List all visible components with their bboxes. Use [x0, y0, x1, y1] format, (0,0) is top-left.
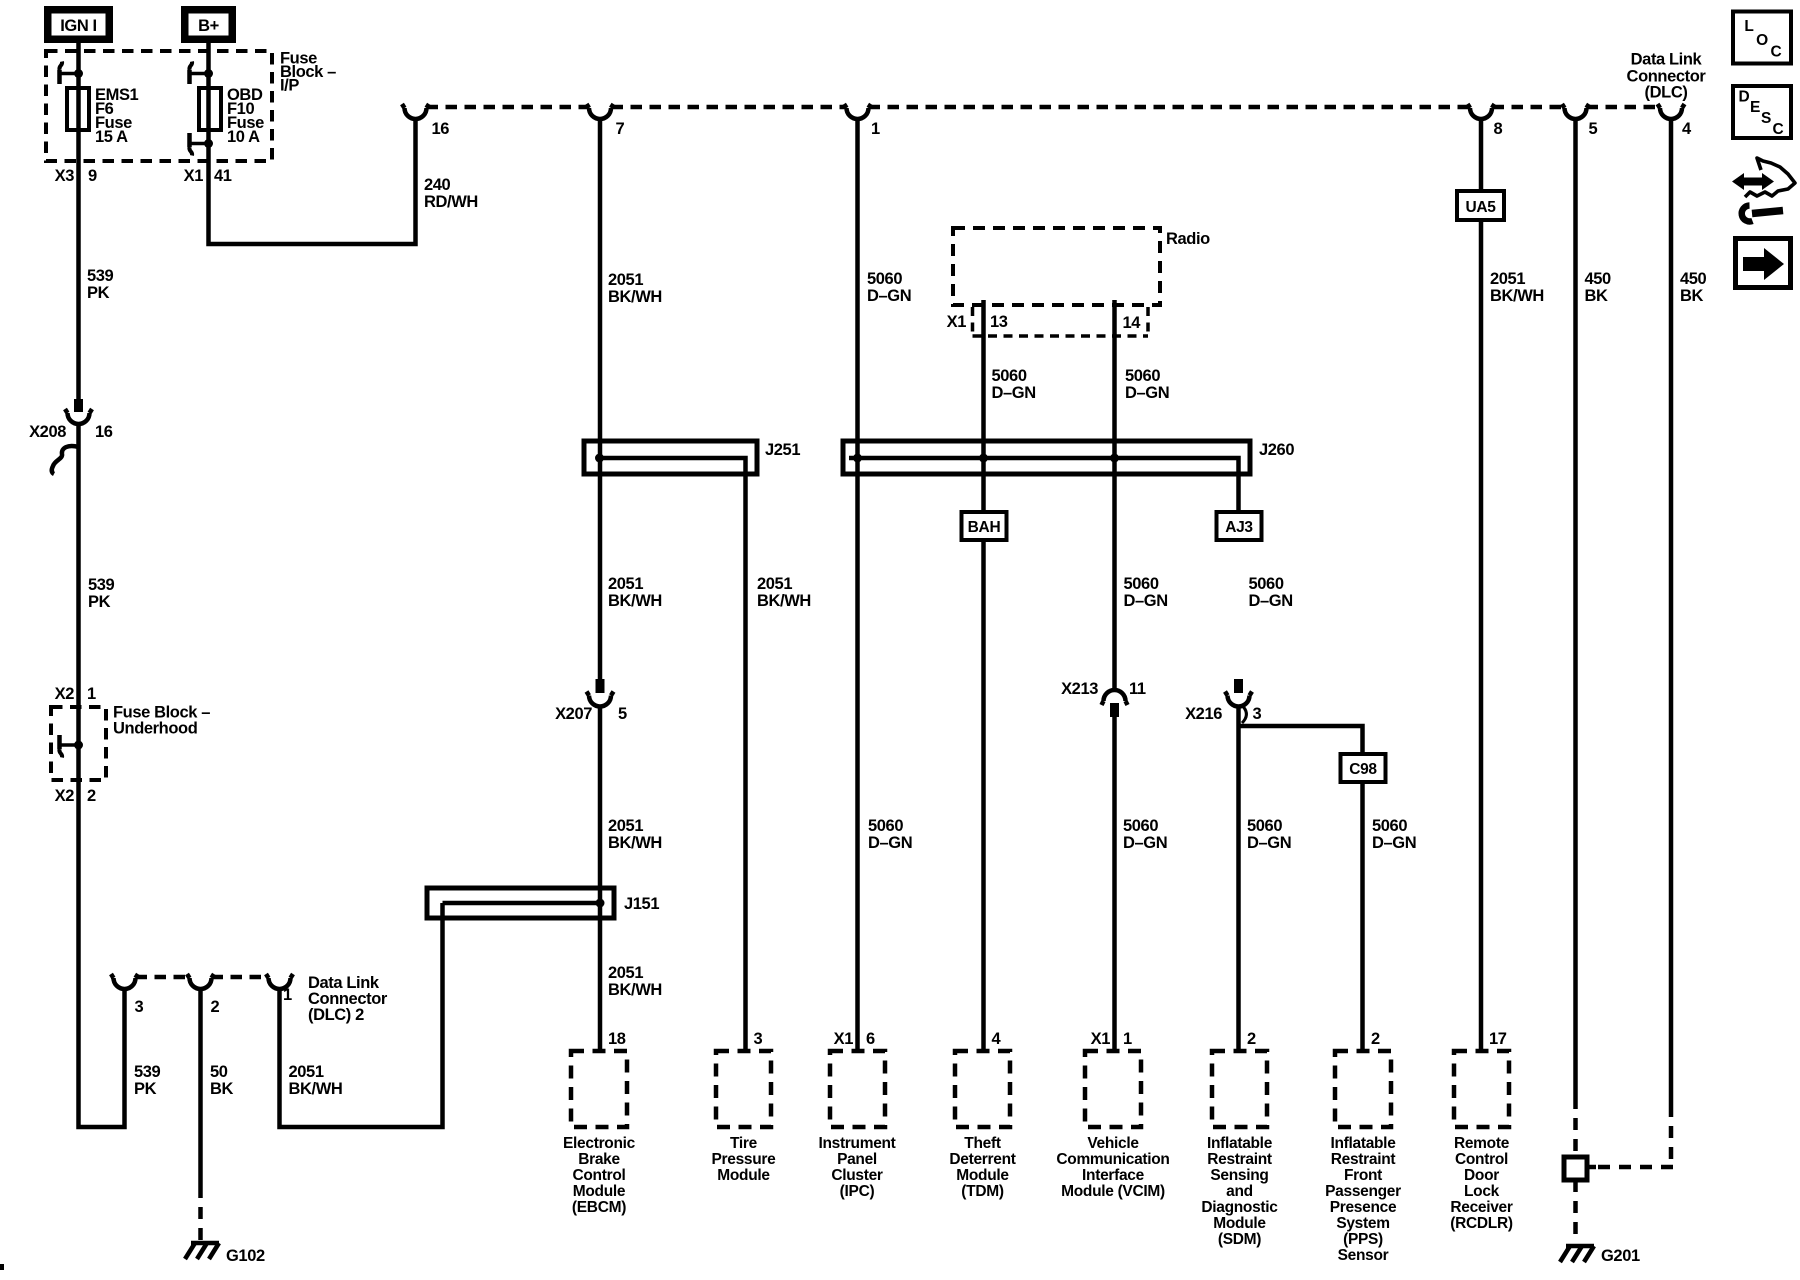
- label SDM: [1201, 1135, 1278, 1248]
- fuse OBD F10 10A: [199, 88, 221, 130]
- svg-text:G102: G102: [226, 1247, 265, 1265]
- svg-text:1: 1: [283, 986, 292, 1004]
- svg-text:8: 8: [1494, 120, 1503, 138]
- wire 5060 D-GN: Radio pin 13 through J260 and BAH to TDM: [981, 300, 986, 1051]
- svg-text:Vehicle: Vehicle: [1087, 1135, 1139, 1152]
- Radio connector face dashed: [973, 307, 1149, 336]
- DLC2 pin 1 cup: [266, 974, 293, 989]
- module EBCM dashed box: [571, 1051, 627, 1127]
- svg-text:BAH: BAH: [968, 519, 1001, 536]
- svg-text:Radio: Radio: [1166, 230, 1210, 248]
- svg-text:9: 9: [88, 167, 97, 185]
- svg-text:Deterrent: Deterrent: [949, 1151, 1015, 1168]
- DLC pin 1 cup: [844, 104, 871, 119]
- wire 450 BK: DLC pin 4 to splice: [1669, 119, 1674, 1105]
- label X213 11: [1061, 680, 1146, 698]
- svg-text:BK/WH: BK/WH: [608, 592, 662, 610]
- svg-text:5060: 5060: [1123, 817, 1158, 835]
- svg-text:J251: J251: [765, 441, 800, 459]
- svg-text:PK: PK: [134, 1080, 157, 1098]
- svg-text:Interface: Interface: [1082, 1167, 1145, 1184]
- svg-text:Lock: Lock: [1464, 1183, 1500, 1200]
- svg-text:14: 14: [1123, 314, 1142, 332]
- label X2 2: [55, 787, 96, 805]
- fuse block I/P dashed outline: [46, 51, 272, 161]
- svg-text:Control: Control: [1455, 1151, 1508, 1168]
- fuse block Underhood dashed outline: [51, 707, 106, 780]
- wire B+ through OBD fuse to DLC pin 16 (240 RD/WH): [209, 43, 416, 244]
- svg-text:BK/WH: BK/WH: [608, 834, 662, 852]
- svg-text:X208: X208: [29, 423, 66, 441]
- option box BAH: [962, 512, 1007, 540]
- wire 5060 D-GN: X213 to VCIM: [1112, 703, 1117, 1051]
- module VCIM dashed box: [1085, 1051, 1141, 1127]
- svg-text:Restraint: Restraint: [1207, 1151, 1272, 1168]
- splice pack J151: [427, 888, 659, 918]
- svg-text:BK: BK: [210, 1080, 234, 1098]
- svg-text:BK: BK: [1680, 287, 1704, 305]
- ground G102: [185, 1243, 265, 1265]
- svg-text:Diagnostic: Diagnostic: [1201, 1199, 1278, 1216]
- svg-text:C: C: [1771, 44, 1782, 61]
- svg-text:15 A: 15 A: [95, 128, 128, 146]
- svg-text:450: 450: [1585, 270, 1612, 288]
- svg-text:Underhood: Underhood: [113, 720, 197, 738]
- splice pack J251: [584, 441, 800, 1051]
- svg-text:1: 1: [1123, 1030, 1132, 1048]
- svg-text:5060: 5060: [1124, 575, 1159, 593]
- svg-text:2: 2: [87, 787, 96, 805]
- svg-text:AJ3: AJ3: [1225, 519, 1253, 536]
- module SDM dashed box: [1212, 1051, 1267, 1127]
- svg-text:Remote: Remote: [1454, 1135, 1510, 1152]
- terminal box IGN I: [44, 6, 113, 43]
- module Tire Pressure dashed box: [716, 1051, 771, 1127]
- svg-text:X207: X207: [555, 705, 592, 723]
- svg-text:D–GN: D–GN: [1249, 592, 1293, 610]
- Radio dashed box: [953, 228, 1160, 305]
- svg-text:(EBCM): (EBCM): [572, 1199, 626, 1216]
- svg-text:O: O: [1756, 32, 1768, 49]
- DLC2 dashed bus: [111, 975, 269, 980]
- svg-text:BK/WH: BK/WH: [289, 1080, 343, 1098]
- connector X207 cup: [587, 692, 614, 707]
- svg-text:BK/WH: BK/WH: [608, 981, 662, 999]
- connector X207 pin end blob: [596, 679, 605, 693]
- label Tire Pressure Module: [712, 1135, 777, 1184]
- svg-text:B+: B+: [198, 17, 219, 35]
- svg-text:2051: 2051: [757, 575, 792, 593]
- sidebar repair icon: double arrow: [1732, 173, 1774, 190]
- svg-text:2: 2: [1371, 1030, 1380, 1048]
- svg-text:11: 11: [1129, 680, 1146, 698]
- svg-text:Data Link: Data Link: [1631, 51, 1703, 69]
- label X207 5: [555, 705, 627, 723]
- label VCIM: [1056, 1135, 1169, 1200]
- dashed wire splice to G201: [1573, 1180, 1578, 1243]
- DLC pin 7 cup: [587, 104, 614, 119]
- wire 450 BK: DLC pin 5 to splice: [1573, 119, 1578, 1097]
- wire label 5060 D-GN lower PPS: [1372, 817, 1416, 852]
- svg-text:2051: 2051: [608, 271, 643, 289]
- wire 5060 D-GN: Radio pin 14 down to X213: [1112, 300, 1117, 690]
- svg-text:UA5: UA5: [1465, 199, 1496, 216]
- svg-text:1: 1: [87, 685, 96, 703]
- option box C98: [1341, 754, 1386, 782]
- svg-text:(DLC): (DLC): [1645, 84, 1688, 102]
- wire 539 PK: X208 to DLC2 pin 3: [79, 424, 125, 1127]
- svg-text:X3: X3: [55, 167, 75, 185]
- svg-text:Presence: Presence: [1330, 1199, 1397, 1216]
- label X1 41: [184, 167, 232, 185]
- svg-text:RD/WH: RD/WH: [424, 193, 478, 211]
- svg-text:(IPC): (IPC): [840, 1183, 875, 1200]
- svg-text:3: 3: [1253, 705, 1262, 723]
- wire label 5060 D-GN lower IPC: [868, 817, 912, 852]
- svg-text:5060: 5060: [1125, 367, 1160, 385]
- svg-text:PK: PK: [87, 284, 110, 302]
- DLC pin 8 cup: [1468, 104, 1495, 119]
- svg-text:C: C: [1773, 121, 1784, 138]
- svg-text:D–GN: D–GN: [1124, 592, 1168, 610]
- svg-text:5060: 5060: [1249, 575, 1284, 593]
- svg-text:Sensor: Sensor: [1338, 1247, 1389, 1264]
- wire branch X216 to C98: [1239, 726, 1363, 754]
- wire label 5060 D-GN radio pin 13: [992, 367, 1036, 402]
- wire label 5060 D-GN lower SDM: [1247, 817, 1291, 852]
- svg-text:Restraint: Restraint: [1331, 1151, 1396, 1168]
- svg-text:X213: X213: [1061, 680, 1098, 698]
- label Fuse Block - I/P: [280, 50, 336, 95]
- option box UA5: [1457, 191, 1504, 220]
- label IPC: [818, 1135, 895, 1200]
- svg-text:Inflatable: Inflatable: [1330, 1135, 1396, 1152]
- svg-text:5060: 5060: [867, 270, 902, 288]
- svg-text:Brake: Brake: [578, 1151, 620, 1168]
- wire 5060 D-GN: DLC pin 1 to IPC: [855, 119, 860, 1051]
- svg-text:539: 539: [134, 1063, 161, 1081]
- connector X208 pin end blob: [74, 399, 83, 412]
- svg-text:Module (VCIM): Module (VCIM): [1061, 1183, 1165, 1200]
- connector X216 pigtail: [1242, 707, 1246, 723]
- svg-text:L: L: [1744, 18, 1753, 35]
- label X208 16: [29, 423, 113, 441]
- connector X208 pigtail hook: [52, 446, 79, 474]
- module PPS dashed box: [1335, 1051, 1391, 1127]
- svg-text:Electronic: Electronic: [563, 1135, 636, 1152]
- wire label 2051 BK/WH below J251 right: [757, 575, 811, 610]
- svg-text:BK/WH: BK/WH: [757, 592, 811, 610]
- label PPS: [1325, 1135, 1401, 1264]
- svg-text:4: 4: [992, 1030, 1002, 1048]
- svg-text:2051: 2051: [608, 964, 643, 982]
- wire label 450 BK pin 5: [1585, 270, 1612, 305]
- label X2 1: [55, 685, 96, 703]
- svg-text:Inflatable: Inflatable: [1207, 1135, 1273, 1152]
- svg-text:Module: Module: [956, 1167, 1009, 1184]
- wire label 2051 BK/WH right: [1490, 270, 1544, 305]
- svg-text:I/P: I/P: [280, 77, 299, 95]
- connector X213 cap: [1102, 690, 1128, 705]
- svg-text:Cluster: Cluster: [831, 1167, 883, 1184]
- svg-text:(RCDLR): (RCDLR): [1450, 1215, 1513, 1232]
- wire label 539 PK middle: [88, 576, 115, 611]
- label RCDLR: [1450, 1135, 1513, 1232]
- svg-text:X1: X1: [1091, 1030, 1111, 1048]
- wire label 2051 BK/WH below J151: [608, 964, 662, 999]
- svg-text:Control: Control: [573, 1167, 626, 1184]
- wire label 50 BK: [210, 1063, 234, 1098]
- svg-text:Receiver: Receiver: [1450, 1199, 1513, 1216]
- svg-text:240: 240: [424, 176, 451, 194]
- wire label 539 PK bottom: [134, 1063, 161, 1098]
- svg-text:539: 539: [87, 267, 114, 285]
- label TDM: [949, 1135, 1015, 1200]
- svg-text:Front: Front: [1344, 1167, 1382, 1184]
- label Data Link Connector (DLC) 2: [308, 974, 388, 1024]
- svg-text:13: 13: [990, 313, 1008, 331]
- svg-text:3: 3: [135, 998, 144, 1016]
- svg-text:5060: 5060: [992, 367, 1027, 385]
- svg-text:X2: X2: [55, 787, 75, 805]
- wire label 2051 BK/WH upper: [608, 271, 662, 306]
- wire 2051 BK/WH: X207 through J151 to EBCM pin 18: [598, 707, 603, 1052]
- sidebar DESC box: [1733, 86, 1791, 138]
- svg-text:5060: 5060: [868, 817, 903, 835]
- svg-text:(DLC) 2: (DLC) 2: [308, 1006, 364, 1024]
- sidebar arrow box: [1736, 239, 1791, 288]
- svg-text:5060: 5060: [1247, 817, 1282, 835]
- wire label 240 RD/WH: [424, 176, 478, 211]
- svg-text:System: System: [1336, 1215, 1389, 1232]
- svg-text:7: 7: [616, 120, 625, 138]
- svg-text:Panel: Panel: [837, 1151, 877, 1168]
- svg-text:2051: 2051: [608, 817, 643, 835]
- DLC dashed bus line: [427, 105, 1661, 110]
- wire 2051 BK/WH: DLC2 pin 1 to J151: [280, 903, 443, 1127]
- wire label 5060 D-GN lower VCIM: [1123, 817, 1167, 852]
- option box AJ3: [1217, 512, 1262, 540]
- label X216 3: [1185, 705, 1261, 723]
- wire 5060 D-GN: X216 to SDM: [1236, 707, 1241, 1052]
- connector X216 pin end blob: [1234, 679, 1243, 693]
- svg-text:Instrument: Instrument: [818, 1135, 895, 1152]
- svg-text:IGN I: IGN I: [60, 17, 97, 35]
- svg-text:Communication: Communication: [1056, 1151, 1169, 1168]
- DLC pin 16 cup: [402, 104, 429, 119]
- DLC2 pin 2 cup: [187, 974, 214, 989]
- wire 2051 BK/WH: DLC pin 8 through UA5 to RCDLR: [1479, 119, 1484, 1051]
- label Data Link Connector (DLC): [1627, 51, 1707, 102]
- svg-text:16: 16: [432, 120, 450, 138]
- clip hook below OBD fuse: [189, 133, 213, 156]
- wire label 5060 D-GN below J260 (VCIM): [1124, 575, 1168, 610]
- wire label 2051 BK/WH below J251 left: [608, 575, 662, 610]
- svg-text:C98: C98: [1349, 761, 1377, 778]
- svg-text:2: 2: [211, 998, 220, 1016]
- svg-text:50: 50: [210, 1063, 228, 1081]
- svg-text:4: 4: [1682, 120, 1692, 138]
- svg-text:(SDM): (SDM): [1218, 1231, 1261, 1248]
- svg-text:E: E: [1750, 99, 1760, 116]
- connector X216 cup: [1225, 692, 1252, 707]
- svg-text:10 A: 10 A: [227, 128, 260, 146]
- svg-text:6: 6: [866, 1030, 875, 1048]
- svg-text:Door: Door: [1464, 1167, 1499, 1184]
- svg-text:Pressure: Pressure: [712, 1151, 777, 1168]
- label Fuse Block - Underhood: [113, 704, 210, 738]
- clip hook at EMS1 fuse: [59, 62, 83, 85]
- module IPC dashed box: [830, 1051, 885, 1127]
- svg-text:S: S: [1761, 110, 1771, 127]
- pin label X1 1 VCIM: [1091, 1030, 1132, 1048]
- wire label 5060 D-GN radio pin 14: [1125, 367, 1169, 402]
- svg-text:2051: 2051: [608, 575, 643, 593]
- svg-text:5060: 5060: [1372, 817, 1407, 835]
- wire label 450 BK pin 4: [1680, 270, 1707, 305]
- wire 5060 D-GN: C98 to PPS: [1360, 782, 1365, 1051]
- label X1 13 14 radio pins: [947, 313, 1142, 332]
- terminal box B+: [181, 6, 236, 43]
- svg-text:(TDM): (TDM): [961, 1183, 1004, 1200]
- svg-text:BK/WH: BK/WH: [608, 288, 662, 306]
- svg-text:BK: BK: [1585, 287, 1609, 305]
- svg-text:Theft: Theft: [964, 1135, 1001, 1152]
- svg-text:3: 3: [754, 1030, 763, 1048]
- sidebar repair icon: wrench: [1742, 206, 1783, 222]
- wire label 5060 D-GN upper IPC: [867, 270, 911, 305]
- svg-text:D–GN: D–GN: [1372, 834, 1416, 852]
- svg-text:Module: Module: [717, 1167, 770, 1184]
- svg-text:PK: PK: [88, 593, 111, 611]
- svg-text:16: 16: [95, 423, 113, 441]
- svg-text:18: 18: [608, 1030, 626, 1048]
- svg-text:X216: X216: [1185, 705, 1222, 723]
- DLC pin 5 cup: [1562, 104, 1589, 119]
- svg-text:2051: 2051: [1490, 270, 1525, 288]
- wire label 2051 BK/WH bottom left: [289, 1063, 343, 1098]
- wire label 539 PK upper: [87, 267, 114, 302]
- wire 2051 BK/WH: DLC pin 7 down to X207: [598, 119, 603, 679]
- splice pack J260: [843, 441, 1294, 512]
- splice block square: [1564, 1157, 1587, 1180]
- module RCDLR dashed box: [1454, 1051, 1509, 1127]
- svg-text:and: and: [1226, 1183, 1253, 1200]
- svg-text:D–GN: D–GN: [1125, 384, 1169, 402]
- svg-text:J260: J260: [1259, 441, 1294, 459]
- svg-text:X2: X2: [55, 685, 75, 703]
- svg-text:D–GN: D–GN: [868, 834, 912, 852]
- svg-text:(PPS): (PPS): [1343, 1231, 1383, 1248]
- svg-text:D–GN: D–GN: [992, 384, 1036, 402]
- wire 50 BK: DLC2 pin 2 to G102: [198, 989, 203, 1186]
- svg-text:J151: J151: [624, 895, 659, 913]
- wire label 2051 BK/WH above J151: [608, 817, 662, 852]
- svg-text:450: 450: [1680, 270, 1707, 288]
- wire label 5060 D-GN below AJ3: [1249, 575, 1293, 610]
- DLC pin 4 cup: [1658, 104, 1685, 119]
- svg-text:1: 1: [871, 120, 880, 138]
- svg-text:D: D: [1739, 89, 1750, 106]
- pin label X1 6 IPC: [834, 1030, 875, 1048]
- svg-text:D–GN: D–GN: [1123, 834, 1167, 852]
- svg-text:2051: 2051: [289, 1063, 324, 1081]
- clip hook inside underhood block: [59, 735, 83, 758]
- svg-text:Passenger: Passenger: [1325, 1183, 1401, 1200]
- wire IGN I to X208 (539 PK upper): [76, 43, 81, 399]
- DLC2 pin 3 cup: [111, 974, 138, 989]
- svg-text:D–GN: D–GN: [867, 287, 911, 305]
- svg-text:Tire: Tire: [730, 1135, 758, 1152]
- label X3 9: [55, 167, 97, 185]
- page corner artifact: [0, 1264, 4, 1270]
- svg-text:Sensing: Sensing: [1210, 1167, 1268, 1184]
- ground G201: [1560, 1246, 1640, 1265]
- label EBCM: [563, 1135, 636, 1216]
- sidebar repair icon: harness outline squiggle: [1745, 158, 1795, 197]
- module TDM dashed box: [955, 1051, 1010, 1127]
- svg-text:2: 2: [1247, 1030, 1256, 1048]
- svg-text:D–GN: D–GN: [1247, 834, 1291, 852]
- svg-text:5: 5: [618, 705, 627, 723]
- svg-text:17: 17: [1489, 1030, 1507, 1048]
- svg-text:Module: Module: [573, 1183, 626, 1200]
- svg-text:X1: X1: [184, 167, 204, 185]
- svg-text:X1: X1: [834, 1030, 854, 1048]
- svg-text:41: 41: [214, 167, 232, 185]
- fuse EMS1 F6 15A: [67, 88, 89, 130]
- clip hook above OBD fuse: [189, 62, 213, 85]
- sidebar LOC box: [1733, 12, 1791, 64]
- svg-text:G201: G201: [1601, 1247, 1640, 1265]
- svg-text:Module: Module: [1213, 1215, 1266, 1232]
- svg-text:539: 539: [88, 576, 115, 594]
- svg-text:X1: X1: [947, 313, 967, 331]
- svg-text:5: 5: [1589, 120, 1598, 138]
- svg-text:BK/WH: BK/WH: [1490, 287, 1544, 305]
- connector X213 pin end blob: [1110, 703, 1119, 717]
- connector X208 cup: [65, 409, 92, 424]
